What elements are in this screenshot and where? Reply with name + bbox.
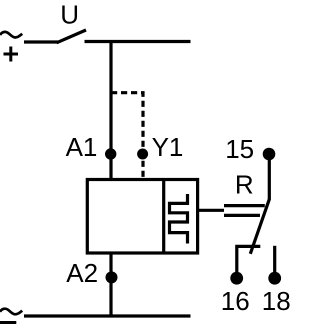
node A1	[105, 148, 116, 159]
wire bottom horizontal	[24, 314, 191, 317]
wire supply to switch	[24, 40, 58, 43]
wire vertical to A1 and box	[109, 42, 112, 180]
svg-text:A2: A2	[66, 258, 98, 288]
supply symbol ~ (bottom left AC)	[0, 309, 22, 315]
timer meander symbol	[170, 194, 188, 244]
mechanical link double line	[224, 206, 265, 216]
contact blade (changeover)	[250, 199, 269, 254]
supply polarity - (minus)	[0, 321, 16, 324]
node 15	[263, 148, 276, 161]
terminal 18 wire	[273, 246, 276, 274]
node A2	[106, 271, 118, 283]
box divider	[162, 180, 165, 254]
svg-text:15: 15	[225, 134, 254, 164]
relay coil box	[87, 180, 197, 254]
wire terminal 15	[268, 156, 271, 200]
node Y1	[137, 149, 148, 160]
terminal 16 bracket	[237, 246, 260, 274]
svg-text:R: R	[235, 169, 254, 199]
node 16	[230, 272, 243, 285]
svg-text:16: 16	[221, 286, 250, 316]
svg-text:Y1: Y1	[152, 132, 184, 162]
wire box output to linkage	[199, 209, 224, 212]
wire dashed branch to Y1	[111, 93, 143, 178]
wire top horizontal	[85, 40, 191, 43]
svg-text:A1: A1	[66, 132, 98, 162]
switch U blade	[57, 30, 87, 43]
node 18	[268, 272, 281, 285]
supply symbol ~ (top left AC)	[0, 32, 22, 38]
svg-text:18: 18	[262, 286, 291, 316]
supply polarity +	[4, 47, 19, 62]
svg-text:U: U	[60, 0, 79, 30]
wire box to A2	[109, 253, 112, 316]
